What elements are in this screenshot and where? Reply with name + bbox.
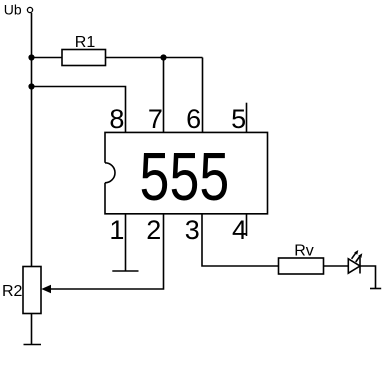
svg-text:7: 7 bbox=[148, 104, 163, 134]
svg-text:555: 555 bbox=[140, 140, 230, 215]
svg-text:4: 4 bbox=[232, 215, 247, 245]
svg-text:2: 2 bbox=[146, 215, 161, 245]
svg-text:8: 8 bbox=[109, 104, 124, 134]
svg-text:3: 3 bbox=[185, 215, 200, 245]
svg-text:Ub: Ub bbox=[4, 2, 22, 18]
svg-text:6: 6 bbox=[186, 104, 201, 134]
svg-text:5: 5 bbox=[231, 104, 246, 134]
svg-text:R2: R2 bbox=[2, 283, 23, 300]
svg-text:1: 1 bbox=[109, 215, 124, 245]
svg-text:R1: R1 bbox=[75, 34, 96, 51]
svg-text:Rv: Rv bbox=[294, 243, 314, 260]
